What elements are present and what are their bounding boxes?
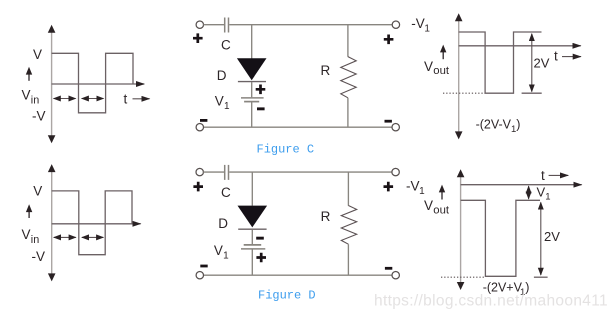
terminal: bottom-right [392, 124, 399, 131]
svg-text:-(2V-V: -(2V-V [476, 118, 512, 132]
svg-text:V: V [215, 93, 224, 108]
svg-text:Figure D: Figure D [258, 289, 316, 303]
wire: resistor branch top [347, 172, 349, 206]
label + at top-right terminal [384, 182, 394, 192]
wire: capacitor to top-right terminal [229, 24, 392, 26]
wire: resistor branch bottom [347, 98, 349, 127]
graph2 2V dimension arrow [522, 34, 542, 93]
wire: capacitor to top-right terminal [229, 171, 392, 173]
wire: junction down to diode anode [251, 25, 253, 59]
label - at bottom-left terminal [200, 265, 207, 268]
svg-text:V: V [22, 227, 31, 242]
wire: diode cathode to battery [251, 230, 253, 245]
graph4 dotted level line [441, 276, 485, 278]
graph3 t axis [52, 223, 141, 225]
svg-text:V: V [22, 88, 31, 103]
graph2 label t with arrow [554, 49, 581, 64]
graph2 t axis [459, 45, 581, 47]
svg-text:): ) [516, 118, 520, 132]
wire: top-left terminal to capacitor [203, 171, 224, 173]
graph1 vertical axis [48, 25, 56, 143]
capacitor C [225, 18, 229, 33]
terminal: output top-right [392, 21, 399, 28]
diode D (anode top, cathode bottom) [237, 58, 267, 81]
terminal: bottom-right [392, 272, 399, 279]
wire: bottom rail [203, 274, 392, 276]
svg-text:1: 1 [424, 24, 430, 35]
svg-text:V: V [33, 47, 42, 62]
graph1 label Vin [22, 88, 40, 107]
wire: bottom rail [203, 126, 392, 128]
svg-text:D: D [217, 68, 227, 83]
wire: resistor branch bottom [347, 244, 349, 275]
label + at top-left terminal [193, 182, 203, 192]
graph1 label t with arrow [124, 92, 150, 107]
svg-text:-V: -V [32, 109, 46, 124]
terminal: output top-right [392, 168, 399, 175]
label - at bottom-left terminal [200, 119, 207, 122]
graph4 vertical axis [457, 169, 465, 290]
terminal: input top-left [196, 21, 203, 28]
graph3 Vin label arrow [26, 204, 32, 218]
svg-text:https://blog.csdn.net/mahoon41: https://blog.csdn.net/mahoon411 [374, 292, 608, 309]
svg-text:D: D [218, 216, 228, 231]
capacitor C [225, 165, 229, 180]
wire: battery to bottom rail [251, 249, 253, 275]
graph2 label -(2V-V1) [476, 118, 521, 135]
terminal: bottom-left [196, 272, 203, 279]
svg-text:-V: -V [32, 249, 46, 264]
svg-text:out: out [433, 204, 450, 216]
graph2 vertical axis [455, 13, 463, 139]
svg-text:V: V [537, 184, 546, 199]
svg-text:-V: -V [411, 16, 425, 31]
wire: top-left terminal to capacitor [203, 24, 224, 26]
label - battery top (negative up) [256, 237, 264, 240]
svg-text:V: V [424, 59, 433, 74]
svg-text:t: t [554, 49, 558, 64]
terminal: bottom-left [196, 124, 203, 131]
svg-text:V: V [33, 184, 42, 199]
diode D (anode top, cathode bottom) [238, 206, 268, 230]
graph1 half-period dimension arrow 1 [54, 98, 76, 100]
wire: resistor branch top [347, 25, 349, 57]
graph3 Vin square waveform [52, 191, 132, 255]
graph4 V1 dimension arrow [528, 186, 530, 199]
svg-text:C: C [221, 185, 231, 200]
graph3 label Vin [22, 227, 40, 246]
graph4 label -(2V+V1) [483, 281, 530, 298]
terminal: input top-left [196, 168, 203, 175]
label + battery bottom plate [256, 253, 266, 263]
graph4 t axis [461, 184, 582, 186]
svg-text:1: 1 [419, 186, 425, 197]
battery V1 (long plate top, short plate bottom) [241, 98, 264, 102]
label - at bottom-right terminal [385, 267, 392, 270]
svg-text:2V: 2V [544, 229, 560, 244]
graph1 t axis [52, 83, 145, 85]
label -V1 node [406, 179, 425, 198]
svg-text:1: 1 [224, 101, 230, 112]
svg-text:1: 1 [545, 192, 550, 203]
svg-text:R: R [321, 209, 331, 224]
label V1 [214, 243, 229, 262]
graph2 label Vout [424, 59, 450, 77]
svg-text:1: 1 [223, 251, 229, 262]
graph1 half-period dimension arrow 2 [82, 98, 104, 100]
label V1 [215, 93, 230, 112]
graph2 Vout waveform [459, 32, 542, 93]
svg-text:R: R [321, 63, 331, 78]
svg-text:out: out [433, 65, 450, 77]
svg-text:in: in [31, 234, 39, 246]
resistor R zigzag [341, 57, 356, 98]
battery V1 (short plate top, long plate bottom) [241, 245, 265, 249]
resistor R zigzag [341, 206, 356, 245]
label + battery top plate [256, 85, 266, 95]
svg-text:2V: 2V [534, 56, 550, 71]
svg-text:V: V [424, 198, 433, 213]
graph4 Vout waveform [461, 200, 540, 276]
wire: diode cathode to battery [251, 82, 253, 97]
graph4 2V dimension arrow [534, 202, 548, 277]
graph1 Vin label arrow [26, 67, 32, 81]
graph4 Vout label arrow [439, 185, 445, 200]
svg-text:C: C [221, 38, 231, 53]
label + at top-left terminal [193, 33, 203, 43]
svg-text:t: t [541, 168, 545, 183]
svg-text:in: in [31, 95, 39, 107]
graph3 half-period dimension arrow 1 [54, 236, 76, 238]
graph4 label V1 [537, 184, 551, 202]
svg-text:-V: -V [406, 179, 420, 194]
wire: battery to bottom rail [251, 102, 253, 128]
graph3 half-period dimension arrow 2 [82, 236, 103, 238]
label -V1 node [411, 16, 430, 35]
graph4 label Vout [424, 198, 450, 216]
wire: junction down to diode anode [251, 172, 253, 206]
graph4 label t with arrow [541, 168, 568, 183]
graph1 Vin square waveform [52, 53, 133, 113]
svg-text:Figure C: Figure C [257, 143, 315, 157]
label - battery bottom plate [257, 107, 265, 110]
graph2 Vout label arrow [440, 45, 446, 60]
graph3 vertical axis [48, 164, 56, 281]
label - at bottom-right terminal [385, 120, 392, 123]
svg-text:V: V [214, 243, 223, 258]
svg-text:t: t [124, 92, 128, 107]
label + at top-right terminal [384, 35, 394, 45]
graph2 dotted level line [443, 92, 485, 94]
